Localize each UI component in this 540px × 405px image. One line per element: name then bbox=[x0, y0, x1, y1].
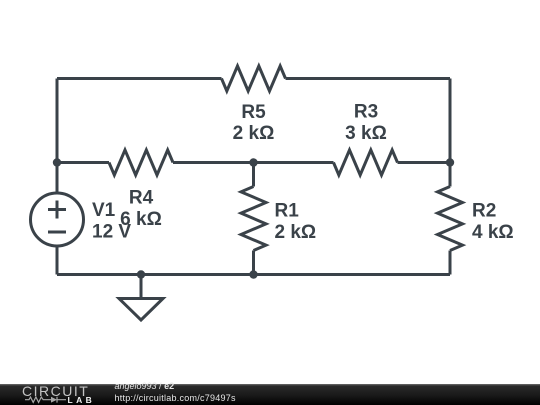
svg-text:12 V: 12 V bbox=[92, 222, 131, 243]
wire top horizontal right of R5 bbox=[286, 77, 451, 80]
V1 minus sign bbox=[48, 231, 66, 234]
wire right vertical bottom bbox=[449, 251, 452, 275]
CircuitLab logo wordmark bbox=[22, 387, 89, 396]
resistor R4 bbox=[109, 150, 173, 175]
wire V1 bottom bbox=[56, 246, 59, 275]
svg-text:R1: R1 bbox=[275, 201, 300, 222]
wire middle horizontal right of R3 bbox=[398, 161, 451, 164]
svg-text:R4: R4 bbox=[129, 188, 154, 209]
resistor R1 bbox=[241, 187, 266, 251]
wire right vertical top bbox=[449, 79, 452, 187]
svg-text:2 kΩ: 2 kΩ bbox=[275, 222, 317, 243]
svg-text:2 kΩ: 2 kΩ bbox=[233, 123, 275, 144]
node at V1/R4 junction bbox=[53, 158, 61, 166]
ground stem bbox=[140, 275, 143, 299]
ground triangle bbox=[119, 299, 163, 321]
logo resistor+diode squiggle bbox=[25, 395, 69, 405]
attribution line 2 url bbox=[115, 394, 236, 403]
svg-text:V1: V1 bbox=[92, 200, 116, 221]
wire top horizontal left of R5 bbox=[57, 77, 222, 80]
svg-text:R5: R5 bbox=[241, 102, 266, 123]
wire bottom horizontal bbox=[57, 273, 450, 276]
node at ground junction bbox=[137, 270, 145, 278]
svg-text:R3: R3 bbox=[354, 102, 378, 123]
node at R3/R2 junction bbox=[446, 158, 454, 166]
wire middle horizontal R4 to R3 bbox=[173, 161, 334, 164]
footer bar bbox=[0, 384, 540, 405]
wire R1 top bbox=[252, 163, 255, 187]
svg-text:R2: R2 bbox=[472, 201, 496, 222]
node at R1 bottom junction bbox=[249, 270, 257, 278]
wire middle horizontal left of R4 bbox=[57, 161, 109, 164]
node at R4/R5/R1 junction bbox=[249, 158, 257, 166]
wire R1 bottom bbox=[252, 251, 255, 275]
voltage source V1 bbox=[31, 193, 84, 246]
resistor R2 bbox=[438, 187, 463, 251]
V1 plus sign bbox=[48, 201, 66, 219]
svg-text:4 kΩ: 4 kΩ bbox=[472, 222, 514, 243]
resistor R5 bbox=[222, 66, 286, 91]
wire left vertical bbox=[56, 79, 59, 194]
resistor R3 bbox=[334, 150, 398, 175]
svg-text:3 kΩ: 3 kΩ bbox=[345, 123, 387, 144]
